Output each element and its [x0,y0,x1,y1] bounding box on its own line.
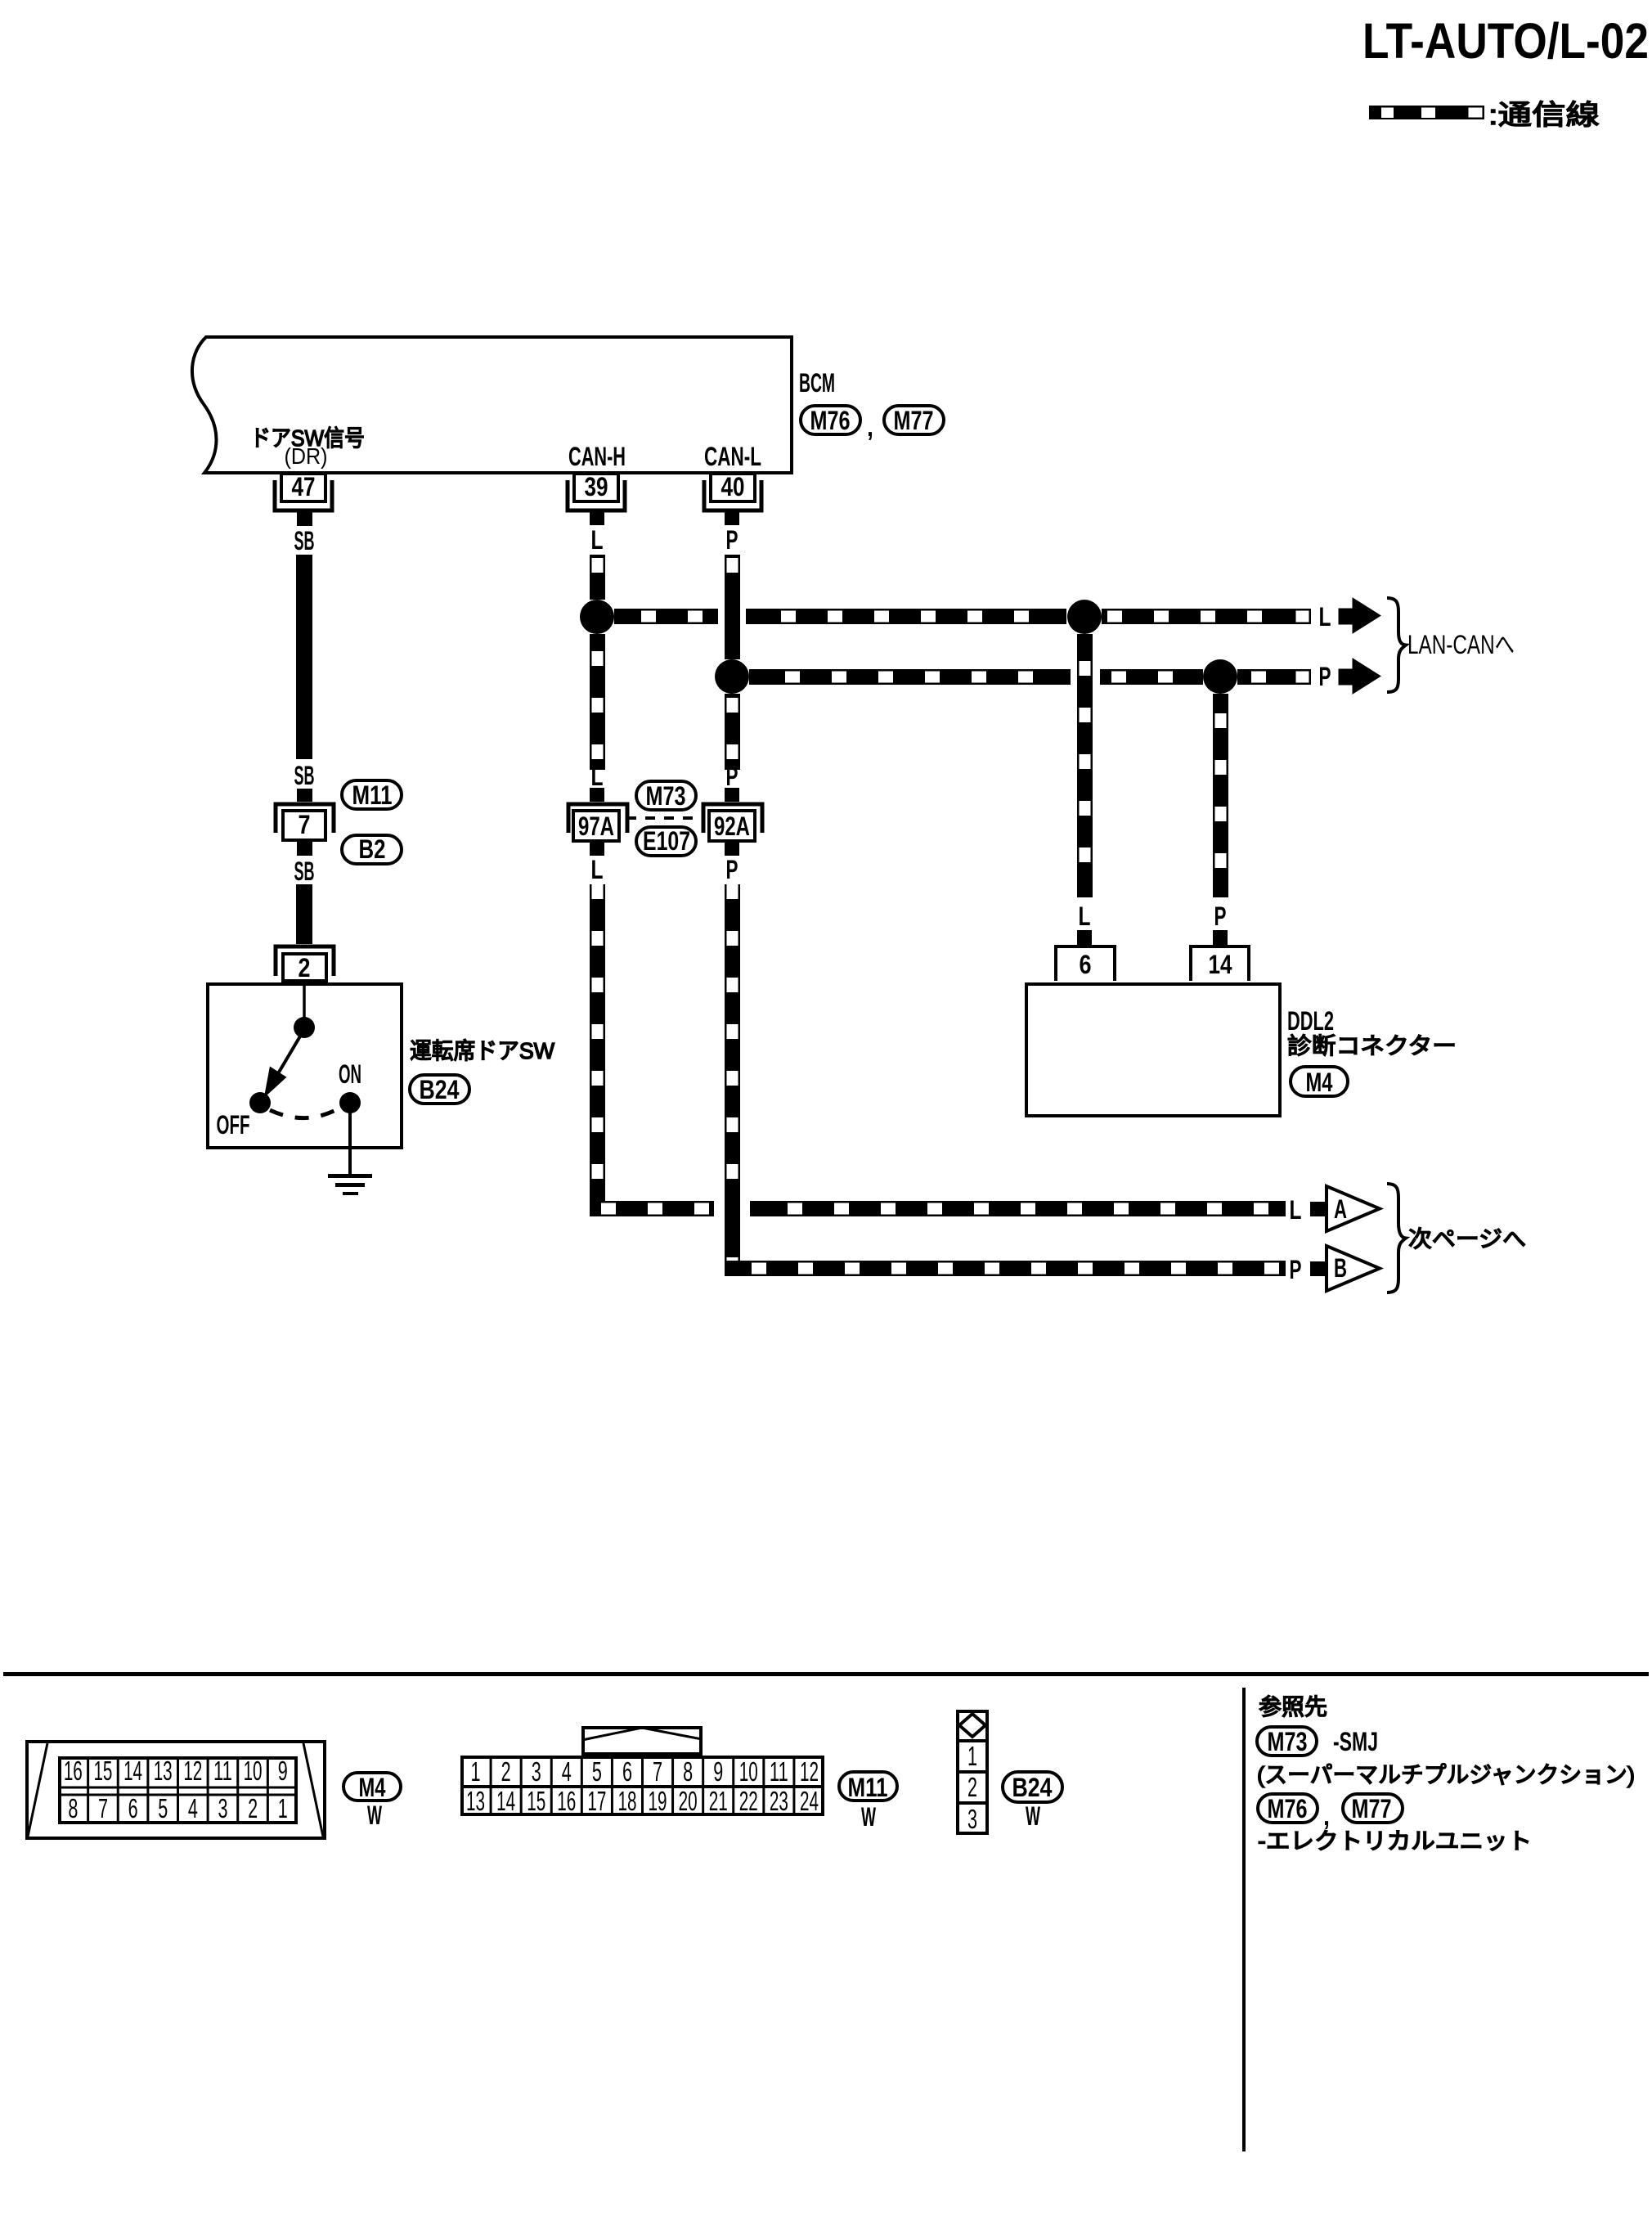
svg-text:LT-AUTO/L-02: LT-AUTO/L-02 [1362,13,1649,69]
svg-text:23: 23 [770,1786,788,1816]
connector face M11 tab [583,1728,701,1754]
svg-text:2: 2 [299,953,311,982]
svg-text:16: 16 [64,1756,83,1786]
svg-text:19: 19 [649,1786,667,1816]
svg-text:4: 4 [562,1756,572,1787]
connector M11 oval [342,780,402,809]
svg-text:10: 10 [739,1756,758,1787]
svg-text:15: 15 [527,1786,545,1816]
junction CAN-L [715,659,749,694]
inline connector 97A bracket [568,804,627,833]
connector E107 oval [636,827,696,856]
arrow to LAN-CAN (P) [1339,659,1380,694]
svg-text:97A: 97A [578,812,614,841]
svg-text:P: P [1214,901,1227,931]
wire SB from pin47 [296,555,312,759]
svg-text:13: 13 [466,1786,485,1816]
inline connector 97A box [573,811,619,841]
svg-text:L: L [1290,1195,1302,1225]
connector M77 oval [884,406,944,434]
svg-text:W: W [1026,1801,1040,1831]
svg-text:P: P [726,762,738,791]
svg-text:P: P [1319,662,1331,691]
svg-text:W: W [861,1802,876,1832]
connector face M4 outline [27,1742,325,1838]
connector M4 oval [1291,1067,1348,1096]
svg-text:,: , [867,412,873,442]
svg-text:L: L [1079,901,1091,931]
OFF contact [249,1092,271,1113]
svg-text:39: 39 [585,472,608,501]
svg-text:M4: M4 [1306,1068,1333,1097]
svg-text:診断コネクター: 診断コネクター [1287,1033,1457,1059]
junction CAN-L branch DDL2 [1203,659,1237,694]
svg-text:9: 9 [713,1756,723,1787]
svg-text:W: W [367,1801,382,1830]
svg-text:,: , [1323,1801,1330,1831]
switch pin 2 box [283,954,326,981]
connector B24 oval [410,1075,469,1104]
svg-text:12: 12 [800,1756,819,1787]
door switch box [208,984,402,1148]
svg-text:M11: M11 [848,1773,888,1802]
svg-text:L: L [591,525,604,555]
reference block divider [1242,1688,1246,2151]
BCM pin 47 box [281,474,325,501]
svg-text:P: P [726,525,738,555]
switch output wire [348,1103,352,1176]
svg-text:7: 7 [653,1756,662,1787]
svg-text:20: 20 [679,1786,698,1816]
next-page triangle A [1327,1186,1380,1231]
ON contact [339,1092,361,1113]
svg-text:運転席ドアSW: 運転席ドアSW [410,1038,555,1063]
svg-text:(スーパーマルチプルジャンクション): (スーパーマルチプルジャンクション) [1257,1762,1635,1787]
pin 40 stub [725,511,739,525]
svg-text:16: 16 [557,1786,576,1816]
connector M11 oval [839,1772,897,1801]
connector B24 oval [1003,1772,1062,1802]
pin 39 bracket [568,480,625,510]
CAN-H run to next page [590,1201,714,1216]
inline connector 92A box [709,811,755,841]
pin 47 stub [297,512,312,526]
DDL2 diagnostic connector box [1026,984,1280,1116]
svg-text:10: 10 [244,1756,263,1786]
svg-text:SB: SB [294,761,315,790]
svg-text:6: 6 [128,1793,138,1823]
DDL2 L branch wire [1077,634,1093,897]
connector face B24 strip [958,1711,987,1833]
legend communication-line checker sample [1369,106,1466,119]
svg-text:CAN-H: CAN-H [568,442,626,471]
SMJ dashed separator [626,816,704,820]
svg-text:M73: M73 [646,781,686,811]
svg-text:47: 47 [292,472,316,501]
connector M76 oval [801,406,860,434]
svg-text:2: 2 [501,1756,511,1787]
M11 pin grid [462,1757,823,1814]
inline connector 92A bottom stub [725,843,739,856]
svg-text:17: 17 [587,1786,606,1816]
CAN-H horizontal run [614,609,718,624]
svg-text:L: L [1319,602,1331,632]
svg-text:-エレクトリカルユニット: -エレクトリカルユニット [1258,1828,1532,1854]
brace LAN-CAN [1387,598,1406,692]
svg-text:L: L [591,855,604,884]
switch arm with arrow [277,1031,303,1075]
connector M76 oval (reference) [1258,1794,1318,1823]
svg-text:LAN-CANへ: LAN-CANへ [1407,630,1515,659]
M4 face left bevel [28,1743,47,1837]
ground symbol [328,1174,372,1178]
svg-text:3: 3 [218,1793,227,1823]
svg-text:6: 6 [1080,950,1092,979]
svg-text:21: 21 [709,1786,728,1816]
DDL2 P branch wire [1213,694,1228,897]
M4 face right bevel [303,1743,323,1837]
CAN-L wire vertical [725,555,740,659]
switch internal lead [303,984,306,1018]
CAN-L horizontal run [749,669,1071,685]
svg-text:2: 2 [248,1793,258,1823]
svg-text:-SMJ: -SMJ [1333,1727,1378,1756]
svg-text:参照先: 参照先 [1259,1694,1327,1720]
svg-text:P: P [1290,1255,1302,1284]
next-page stub A [1310,1202,1325,1216]
svg-text:E107: E107 [643,826,690,856]
connector M73 oval (reference) [1257,1727,1317,1756]
CAN-H line end cap [1295,609,1310,623]
svg-text:6: 6 [622,1756,632,1787]
svg-text:(DR): (DR) [285,443,328,469]
svg-text::通信線: :通信線 [1488,100,1600,131]
connector B2 oval [342,835,402,864]
BCM box [192,337,792,473]
svg-text:1: 1 [471,1756,481,1787]
pin 40 bracket [704,480,761,510]
svg-text:OFF: OFF [217,1110,250,1140]
switch common contact [294,1017,315,1038]
svg-text:M4: M4 [359,1773,386,1802]
inline connector 7 box [283,811,325,840]
svg-text:22: 22 [739,1786,758,1816]
svg-text:24: 24 [800,1786,819,1816]
svg-text:B: B [1334,1253,1347,1283]
svg-text:SB: SB [294,526,315,555]
svg-text:A: A [1334,1194,1347,1224]
svg-text:8: 8 [68,1793,78,1823]
svg-text:3: 3 [967,1804,977,1834]
section divider line [3,1672,1649,1676]
DDL2 pin 14 bracket [1191,946,1249,981]
connector M73 oval [636,781,696,810]
dashed travel arc [270,1107,342,1118]
DDL2 pin 14 stub [1213,930,1228,945]
svg-text:3: 3 [532,1756,541,1787]
B24 keying diamond [959,1714,985,1737]
svg-text:5: 5 [158,1793,168,1823]
svg-text:7: 7 [98,1793,108,1823]
svg-text:12: 12 [183,1756,202,1786]
svg-text:92A: 92A [714,812,750,841]
svg-text:2: 2 [967,1772,977,1802]
svg-text:SB: SB [294,856,315,886]
svg-text:P: P [726,855,738,884]
svg-text:11: 11 [770,1756,788,1787]
next-page triangle B [1327,1246,1380,1291]
DDL2 pin 6 stub [1077,930,1092,945]
svg-text:M11: M11 [352,780,393,810]
inline connector 97A bottom stub [590,843,604,856]
arrow to LAN-CAN (L) [1339,598,1380,633]
svg-text:9: 9 [278,1756,288,1786]
svg-text:7: 7 [299,810,311,839]
svg-text:40: 40 [721,472,745,501]
svg-text:1: 1 [278,1793,288,1823]
svg-text:次ページへ: 次ページへ [1408,1226,1526,1252]
next-page stub B [1310,1261,1325,1276]
inline connector 92A bracket [703,804,762,833]
svg-text:M77: M77 [1352,1794,1392,1823]
junction CAN-H branch DDL2 [1067,600,1102,634]
svg-text:M76: M76 [810,406,851,435]
CAN-L line end cap [1295,670,1310,684]
svg-text:B2: B2 [359,834,386,864]
inline connector 92A top stub [725,788,739,802]
svg-text:14: 14 [1209,950,1232,979]
svg-text:11: 11 [213,1756,232,1786]
wire SB to switch [296,884,312,944]
BCM pin 39 box [574,474,618,501]
svg-text:18: 18 [617,1786,636,1816]
svg-text:5: 5 [592,1756,602,1787]
CAN-L wire down to corner [725,884,740,1276]
svg-text:B24: B24 [420,1075,460,1104]
inline connector 7 bottom stub [297,842,312,856]
svg-text:CAN-L: CAN-L [704,442,761,471]
svg-text:B24: B24 [1012,1773,1053,1802]
M4 pin grid [60,1758,296,1823]
DDL2 pin 6 bracket [1056,946,1115,981]
brace next page [1387,1184,1406,1293]
svg-text:M73: M73 [1268,1727,1308,1756]
svg-text:14: 14 [123,1756,142,1786]
connector M4 oval [343,1773,401,1801]
svg-text:DDL2: DDL2 [1287,1006,1334,1036]
pin 39 stub [590,511,604,525]
junction CAN-H [580,600,614,634]
svg-text:ON: ON [339,1059,361,1089]
svg-text:8: 8 [683,1756,693,1787]
connector M77 oval (reference) [1343,1794,1403,1823]
svg-text:4: 4 [188,1793,198,1823]
CAN-H wire down to corner [590,884,605,1216]
svg-text:M76: M76 [1268,1794,1308,1823]
BCM pin 40 box [711,474,755,501]
svg-text:15: 15 [93,1756,112,1786]
svg-text:BCM: BCM [799,368,835,398]
inline connector 97A top stub [590,788,604,802]
svg-text:M77: M77 [894,406,934,435]
pin 47 bracket [275,480,332,510]
svg-text:1: 1 [967,1741,977,1771]
svg-text:14: 14 [496,1786,515,1816]
inline connector 7 bracket [276,804,334,833]
inline connector 7 top stub [297,789,312,802]
svg-text:13: 13 [154,1756,173,1786]
switch pin 2 bracket [276,946,334,976]
CAN-H wire vertical [590,555,605,600]
svg-text:L: L [591,762,604,791]
CAN-L run to next page [725,1261,1286,1276]
